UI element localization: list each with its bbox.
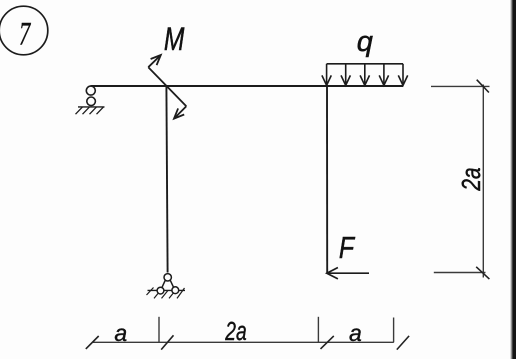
svg-text:M: M bbox=[164, 22, 185, 58]
right dimension 2a bbox=[431, 80, 490, 279]
problem number circle 7 bbox=[0, 6, 48, 55]
svg-text:F: F bbox=[339, 230, 356, 264]
svg-text:a: a bbox=[349, 320, 362, 346]
left column member bbox=[166, 86, 167, 273]
svg-text:q: q bbox=[357, 26, 373, 58]
beam (horizontal member) bbox=[91, 85, 404, 87]
distributed load q bbox=[322, 64, 408, 86]
moment M symbol bbox=[148, 55, 186, 119]
bottom dimension chain bbox=[86, 317, 409, 350]
right column member bbox=[326, 86, 328, 273]
svg-text:2a: 2a bbox=[224, 316, 246, 346]
bottom pin support of left column bbox=[147, 274, 186, 299]
left roller support bbox=[76, 86, 105, 114]
svg-text:2a: 2a bbox=[457, 167, 486, 191]
svg-text:a: a bbox=[114, 320, 127, 346]
force F arrow bbox=[327, 268, 369, 279]
svg-text:7: 7 bbox=[19, 17, 32, 53]
